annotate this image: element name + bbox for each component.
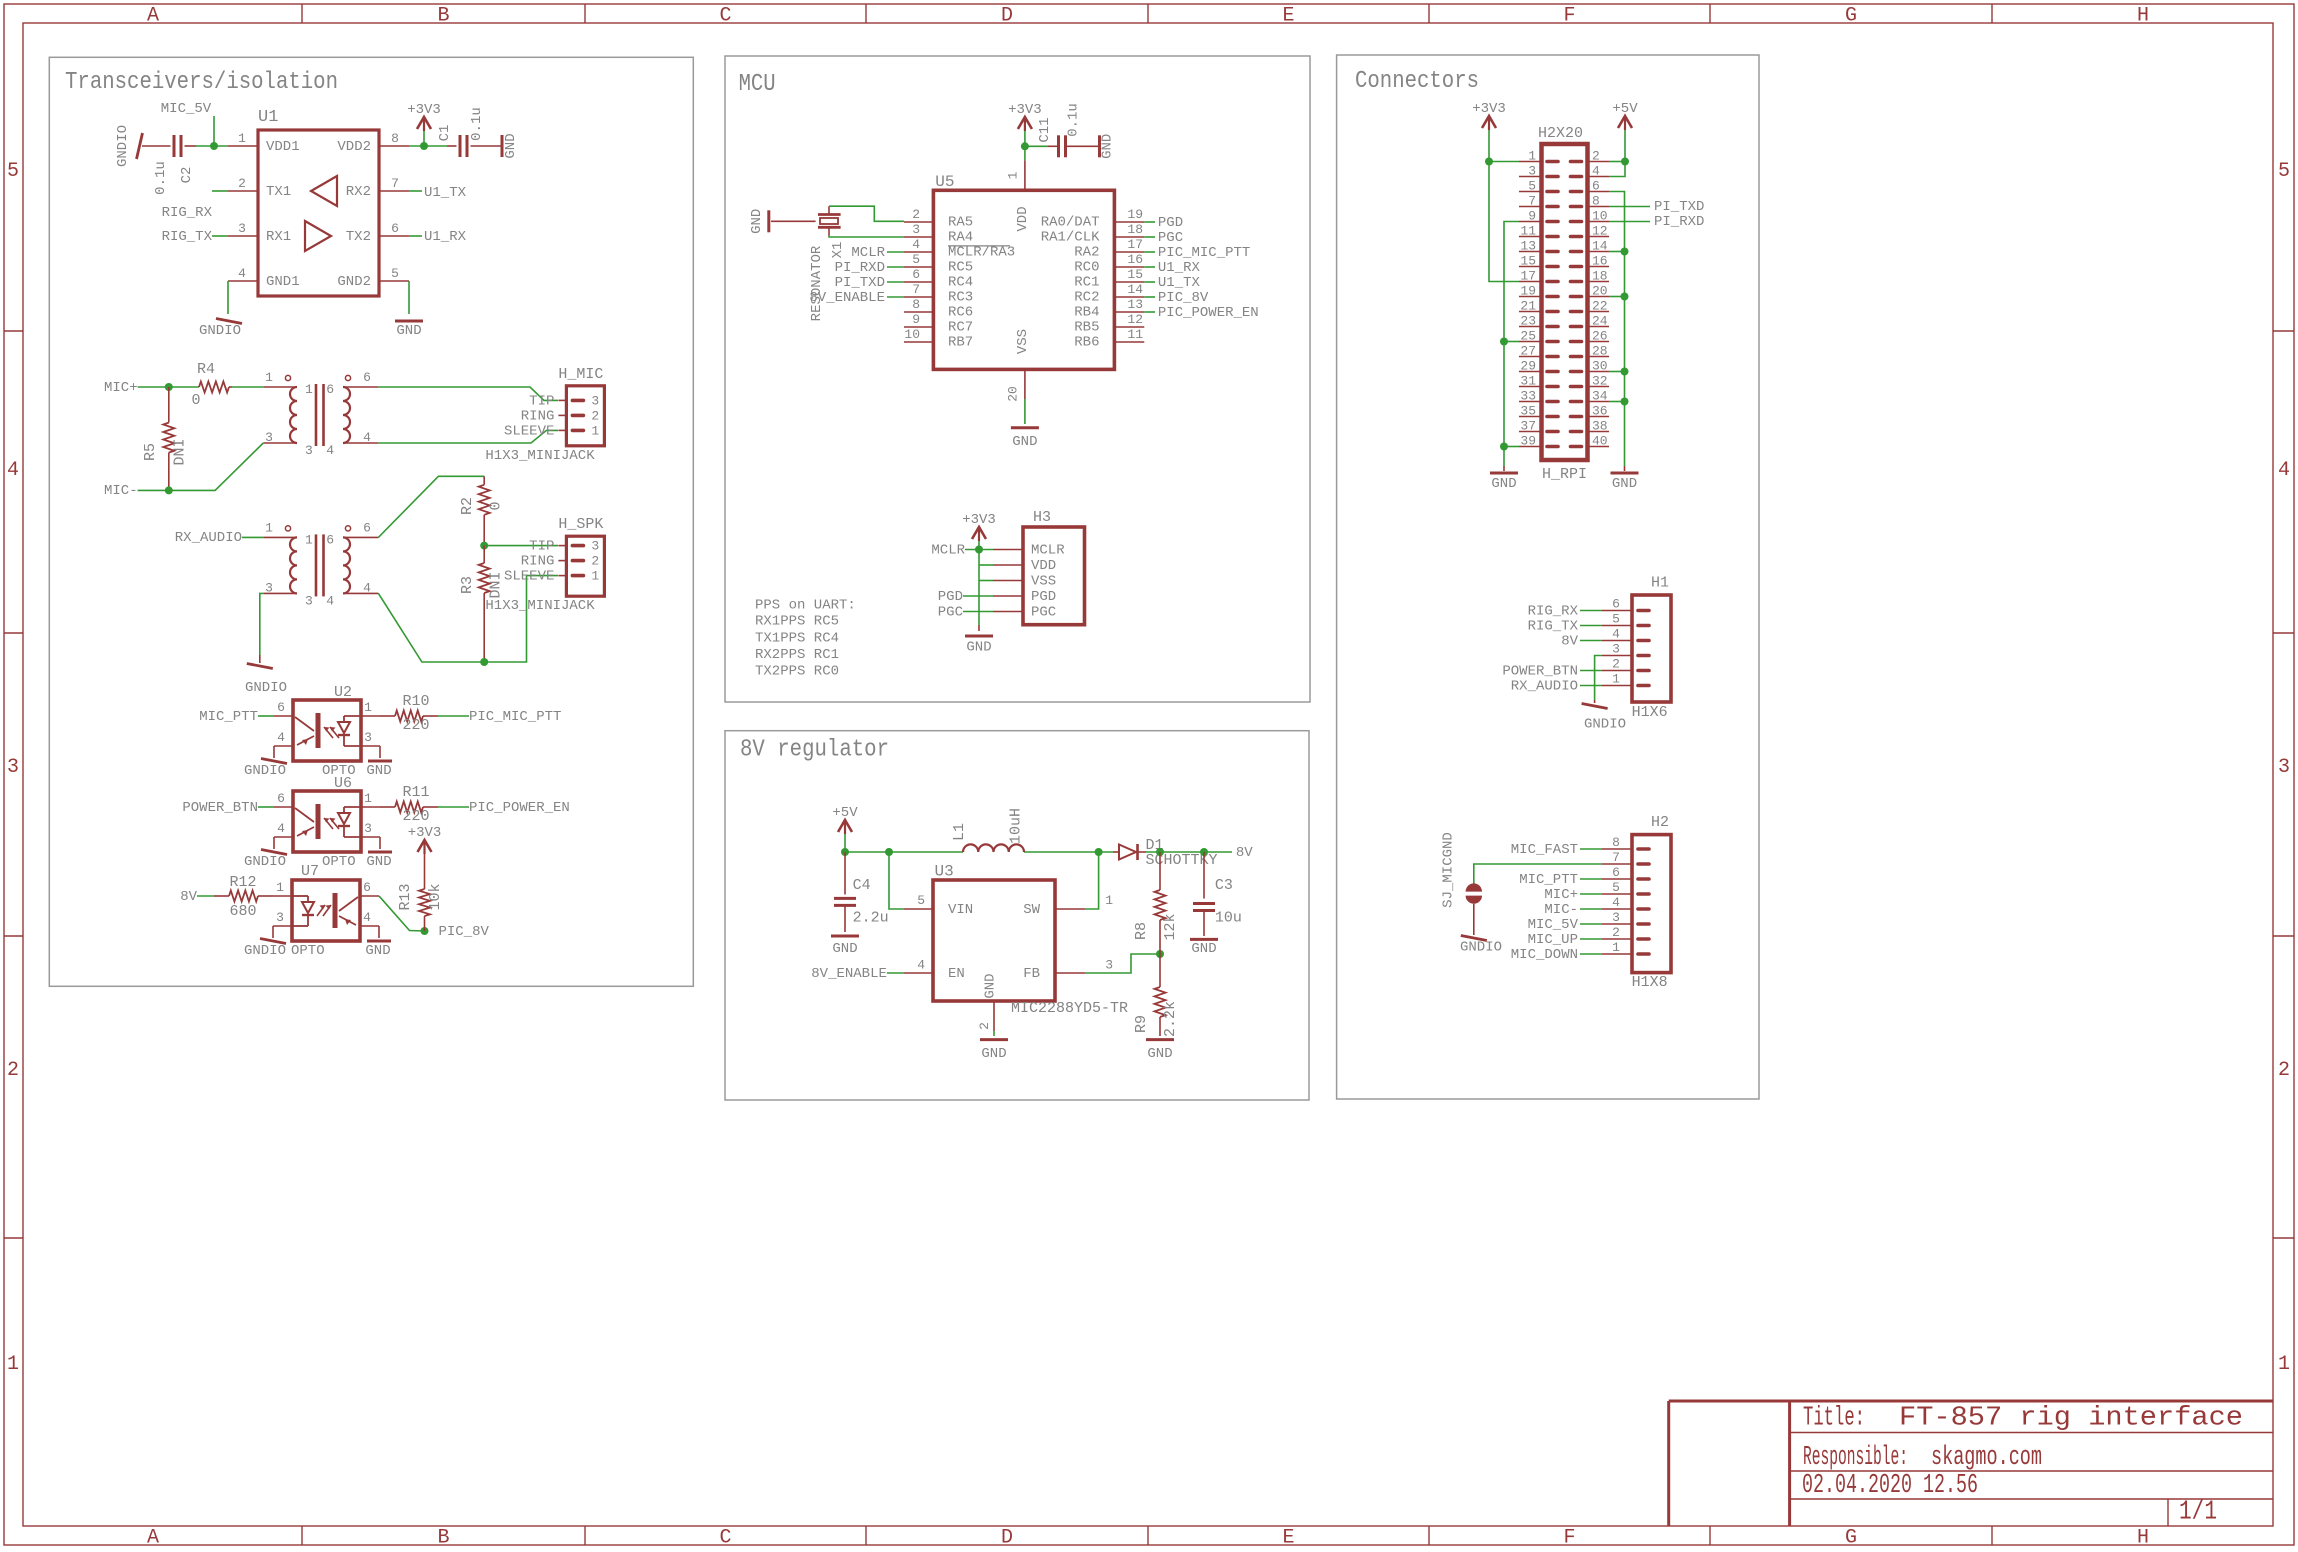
svg-text:G: G	[1845, 5, 1857, 28]
svg-text:H_RPI: H_RPI	[1542, 466, 1587, 483]
svg-text:PGD: PGD	[938, 589, 963, 605]
svg-text:H: H	[2137, 5, 2149, 28]
svg-text:2.2u: 2.2u	[853, 909, 889, 926]
svg-text:C: C	[719, 1527, 731, 1548]
svg-text:VDD1: VDD1	[266, 139, 300, 155]
svg-text:C4: C4	[853, 877, 871, 894]
svg-text:RB4: RB4	[1074, 305, 1099, 321]
svg-text:X1: X1	[830, 242, 846, 259]
svg-text:1: 1	[238, 131, 246, 146]
svg-text:680: 680	[229, 903, 256, 920]
svg-text:10u: 10u	[1215, 909, 1242, 926]
svg-text:H1: H1	[1651, 575, 1669, 592]
svg-text:8: 8	[1612, 835, 1620, 850]
svg-text:10: 10	[904, 327, 920, 342]
svg-text:PIC_POWER_EN: PIC_POWER_EN	[1158, 305, 1259, 321]
svg-text:9: 9	[912, 312, 920, 327]
svg-text:15: 15	[1127, 267, 1143, 282]
svg-text:2: 2	[591, 408, 599, 423]
svg-text:8V_ENABLE: 8V_ENABLE	[811, 966, 887, 982]
svg-text:6: 6	[1612, 865, 1620, 880]
svg-text:RC0: RC0	[1074, 260, 1099, 276]
svg-text:OPTO: OPTO	[322, 854, 356, 870]
svg-text:25: 25	[1520, 329, 1536, 344]
svg-text:PI_TXD: PI_TXD	[835, 275, 885, 291]
svg-text:GND: GND	[1099, 134, 1115, 159]
svg-text:H1X3_MINIJACK: H1X3_MINIJACK	[485, 448, 595, 464]
svg-text:H1X3_MINIJACK: H1X3_MINIJACK	[485, 598, 595, 614]
svg-text:12: 12	[1127, 312, 1143, 327]
svg-text:RIG_RX: RIG_RX	[1528, 604, 1579, 620]
svg-text:1: 1	[364, 700, 372, 715]
svg-text:RX2PPS RC1: RX2PPS RC1	[755, 647, 839, 663]
svg-text:H3: H3	[1033, 509, 1051, 526]
svg-text:GND: GND	[1612, 476, 1637, 492]
svg-text:8V: 8V	[180, 889, 197, 905]
svg-text:skagmo.com: skagmo.com	[1931, 1443, 2042, 1473]
svg-text:28: 28	[1592, 344, 1608, 359]
svg-text:R11: R11	[402, 784, 429, 801]
svg-text:GND: GND	[1147, 1046, 1172, 1062]
svg-text:PGC: PGC	[1158, 230, 1183, 246]
svg-text:10: 10	[1592, 209, 1608, 224]
svg-text:U5: U5	[935, 173, 954, 191]
svg-text:1: 1	[1105, 893, 1113, 908]
svg-text:MCLR: MCLR	[931, 543, 965, 559]
svg-text:30: 30	[1592, 359, 1608, 374]
svg-text:4: 4	[326, 593, 334, 608]
svg-text:OPTO: OPTO	[291, 943, 325, 959]
svg-text:MIC-: MIC-	[104, 483, 138, 499]
svg-text:+3V3: +3V3	[1008, 102, 1042, 118]
svg-text:GNDIO: GNDIO	[244, 943, 286, 959]
svg-text:POWER_BTN: POWER_BTN	[1502, 664, 1578, 680]
svg-text:PIC_8V: PIC_8V	[1158, 290, 1209, 306]
svg-text:3: 3	[1528, 164, 1536, 179]
svg-text:37: 37	[1520, 419, 1536, 434]
svg-text:FT-857 rig interface: FT-857 rig interface	[1899, 1404, 2243, 1434]
svg-text:RA2: RA2	[1074, 245, 1099, 261]
svg-text:GND: GND	[749, 209, 765, 234]
svg-text:5: 5	[7, 160, 19, 183]
svg-text:1/1: 1/1	[2179, 1498, 2217, 1528]
svg-text:1: 1	[265, 370, 273, 385]
svg-text:4: 4	[1592, 164, 1600, 179]
svg-text:PGD: PGD	[1158, 215, 1183, 231]
svg-text:3: 3	[1612, 910, 1620, 925]
svg-text:D: D	[1001, 5, 1013, 28]
svg-text:U3: U3	[935, 863, 954, 881]
svg-text:3: 3	[364, 821, 372, 836]
svg-text:VSS: VSS	[1015, 329, 1031, 354]
svg-text:RB6: RB6	[1074, 335, 1099, 351]
svg-text:3: 3	[7, 756, 19, 779]
svg-text:3: 3	[1105, 958, 1113, 973]
svg-text:17: 17	[1520, 269, 1536, 284]
svg-text:Transceivers/isolation: Transceivers/isolation	[65, 69, 338, 96]
svg-text:+3V3: +3V3	[407, 102, 441, 118]
svg-text:U1_TX: U1_TX	[1158, 275, 1201, 291]
svg-text:4: 4	[277, 730, 285, 745]
svg-text:DNI: DNI	[487, 571, 504, 598]
svg-text:39: 39	[1520, 434, 1536, 449]
svg-text:VDD: VDD	[1015, 206, 1031, 231]
svg-text:5: 5	[1612, 880, 1620, 895]
svg-text:8: 8	[912, 297, 920, 312]
svg-text:11: 11	[1520, 224, 1536, 239]
svg-text:MCLR: MCLR	[1031, 543, 1065, 559]
svg-text:6: 6	[391, 221, 399, 236]
svg-text:4: 4	[238, 266, 246, 281]
svg-text:RC5: RC5	[948, 260, 973, 276]
svg-text:B: B	[437, 5, 449, 28]
svg-text:5: 5	[1528, 179, 1536, 194]
svg-text:GND1: GND1	[266, 274, 300, 290]
svg-text:FB: FB	[1023, 966, 1040, 982]
svg-text:L1: L1	[951, 823, 968, 841]
svg-text:22: 22	[1592, 299, 1608, 314]
svg-text:8V regulator: 8V regulator	[740, 737, 889, 764]
svg-text:1: 1	[2278, 1353, 2290, 1376]
svg-text:+3V3: +3V3	[408, 825, 442, 841]
svg-text:3: 3	[305, 593, 313, 608]
svg-text:GND: GND	[1191, 941, 1216, 957]
svg-text:4: 4	[917, 958, 925, 973]
svg-text:DNI: DNI	[171, 438, 188, 465]
svg-text:1: 1	[1612, 672, 1620, 687]
svg-text:7: 7	[912, 282, 920, 297]
svg-text:8V: 8V	[1236, 845, 1253, 861]
svg-text:16: 16	[1127, 252, 1143, 267]
svg-text:MCLR/RA3: MCLR/RA3	[948, 245, 1015, 261]
svg-text:6: 6	[1592, 179, 1600, 194]
svg-text:5: 5	[912, 252, 920, 267]
svg-text:19: 19	[1127, 207, 1143, 222]
svg-text:1: 1	[7, 1353, 19, 1376]
svg-text:1: 1	[364, 791, 372, 806]
svg-text:R5: R5	[142, 443, 159, 461]
svg-text:18: 18	[1127, 222, 1143, 237]
svg-text:GND: GND	[503, 133, 519, 158]
svg-text:MIC_PTT: MIC_PTT	[199, 709, 258, 725]
svg-text:U1_RX: U1_RX	[424, 229, 467, 245]
svg-text:MIC2288YD5-TR: MIC2288YD5-TR	[1011, 1000, 1128, 1017]
svg-text:24: 24	[1592, 314, 1608, 329]
svg-text:32: 32	[1592, 374, 1608, 389]
svg-text:RING: RING	[521, 554, 555, 570]
svg-text:GND: GND	[366, 854, 391, 870]
svg-text:6: 6	[912, 267, 920, 282]
svg-text:26: 26	[1592, 329, 1608, 344]
svg-text:4: 4	[1612, 627, 1620, 642]
svg-text:RC4: RC4	[948, 275, 973, 291]
svg-text:+5V: +5V	[832, 805, 858, 821]
svg-text:R9: R9	[1133, 1015, 1150, 1033]
svg-text:C1: C1	[437, 125, 453, 142]
svg-text:PGC: PGC	[938, 605, 963, 621]
svg-text:PI_TXD: PI_TXD	[1654, 199, 1704, 215]
svg-text:2: 2	[1612, 657, 1620, 672]
svg-text:GNDIO: GNDIO	[1584, 717, 1626, 733]
svg-text:GNDIO: GNDIO	[245, 680, 287, 696]
svg-text:3: 3	[265, 430, 273, 445]
svg-text:3: 3	[364, 730, 372, 745]
svg-text:PI_RXD: PI_RXD	[835, 260, 885, 276]
svg-text:4: 4	[2278, 459, 2290, 482]
svg-text:RA4: RA4	[948, 230, 973, 246]
svg-text:6: 6	[363, 520, 371, 535]
svg-text:U7: U7	[301, 863, 319, 880]
svg-text:H2X20: H2X20	[1538, 125, 1583, 142]
svg-text:6: 6	[277, 700, 285, 715]
svg-text:0.1u: 0.1u	[153, 161, 169, 195]
svg-text:MIC_FAST: MIC_FAST	[1511, 842, 1578, 858]
svg-text:MIC_UP: MIC_UP	[1528, 932, 1578, 948]
svg-text:RC2: RC2	[1074, 290, 1099, 306]
svg-text:D: D	[1001, 1527, 1013, 1548]
svg-text:1: 1	[1006, 171, 1021, 179]
svg-text:VDD2: VDD2	[337, 139, 371, 155]
svg-text:TIP: TIP	[529, 393, 554, 409]
svg-text:GND: GND	[396, 323, 421, 339]
svg-text:R10: R10	[402, 693, 429, 710]
svg-text:Connectors: Connectors	[1355, 68, 1479, 95]
svg-text:H_SPK: H_SPK	[558, 516, 603, 533]
svg-text:+3V3: +3V3	[1472, 101, 1506, 117]
svg-text:1: 1	[591, 423, 599, 438]
svg-text:RING: RING	[521, 408, 555, 424]
svg-text:4: 4	[326, 443, 334, 458]
svg-text:SLEEVE: SLEEVE	[504, 423, 554, 439]
svg-text:R2: R2	[459, 497, 476, 515]
svg-text:4: 4	[7, 459, 19, 482]
svg-text:2: 2	[912, 207, 920, 222]
svg-text:MCLR: MCLR	[851, 245, 885, 261]
svg-text:220: 220	[402, 717, 429, 734]
svg-text:RC3: RC3	[948, 290, 973, 306]
svg-text:21: 21	[1520, 299, 1536, 314]
svg-text:8: 8	[1592, 194, 1600, 209]
svg-text:9: 9	[1528, 209, 1536, 224]
svg-text:H2: H2	[1651, 814, 1669, 831]
svg-text:6: 6	[326, 382, 334, 397]
svg-text:3: 3	[1612, 642, 1620, 657]
svg-text:10k: 10k	[427, 883, 444, 910]
svg-text:19: 19	[1520, 284, 1536, 299]
svg-text:38: 38	[1592, 419, 1608, 434]
svg-text:PI_RXD: PI_RXD	[1654, 214, 1704, 230]
svg-text:C: C	[719, 5, 731, 28]
svg-text:10uH: 10uH	[1008, 808, 1025, 844]
svg-text:40: 40	[1592, 434, 1608, 449]
svg-text:+3V3: +3V3	[962, 512, 996, 528]
svg-text:GND2: GND2	[337, 274, 371, 290]
svg-text:4: 4	[363, 580, 371, 595]
svg-text:PGD: PGD	[1031, 589, 1056, 605]
svg-text:GND: GND	[983, 973, 999, 998]
svg-text:1: 1	[591, 569, 599, 584]
svg-text:2: 2	[591, 554, 599, 569]
svg-text:H1X6: H1X6	[1632, 704, 1668, 721]
svg-text:R12: R12	[229, 874, 256, 891]
svg-text:6: 6	[363, 880, 371, 895]
svg-text:2: 2	[1612, 925, 1620, 940]
svg-text:12k: 12k	[1162, 913, 1179, 940]
svg-text:Responsible:: Responsible:	[1803, 1443, 1908, 1473]
svg-text:Title:: Title:	[1803, 1404, 1865, 1434]
svg-text:GND: GND	[966, 640, 991, 656]
svg-text:4: 4	[1612, 895, 1620, 910]
svg-text:GNDIO: GNDIO	[244, 763, 286, 779]
svg-text:14: 14	[1592, 239, 1608, 254]
svg-text:33: 33	[1520, 389, 1536, 404]
svg-text:MIC_5V: MIC_5V	[1528, 917, 1579, 933]
svg-text:6: 6	[326, 532, 334, 547]
svg-text:SLEEVE: SLEEVE	[504, 569, 554, 585]
svg-text:MIC-: MIC-	[1544, 902, 1578, 918]
svg-text:6: 6	[363, 370, 371, 385]
svg-text:3: 3	[591, 393, 599, 408]
svg-text:H_MIC: H_MIC	[558, 366, 603, 383]
svg-text:PIC_8V: PIC_8V	[439, 924, 490, 940]
svg-text:5: 5	[917, 893, 925, 908]
svg-text:0.1u: 0.1u	[1065, 103, 1081, 137]
svg-text:31: 31	[1520, 374, 1536, 389]
svg-text:5: 5	[2278, 160, 2290, 183]
svg-text:4: 4	[277, 821, 285, 836]
svg-text:3: 3	[305, 443, 313, 458]
svg-text:RC6: RC6	[948, 305, 973, 321]
svg-text:H1X8: H1X8	[1632, 974, 1668, 991]
svg-text:U2: U2	[334, 684, 352, 701]
svg-text:U1_RX: U1_RX	[1158, 260, 1201, 276]
svg-text:RC7: RC7	[948, 320, 973, 336]
svg-text:GND: GND	[981, 1046, 1006, 1062]
svg-text:TX1: TX1	[266, 184, 291, 200]
svg-text:MIC_PTT: MIC_PTT	[1519, 872, 1578, 888]
svg-text:VSS: VSS	[1031, 574, 1056, 590]
svg-text:RX1PPS RC5: RX1PPS RC5	[755, 614, 839, 630]
svg-text:B: B	[437, 1527, 449, 1548]
svg-text:RA5: RA5	[948, 215, 973, 231]
svg-text:GNDIO: GNDIO	[199, 323, 241, 339]
svg-text:U1_TX: U1_TX	[424, 185, 467, 201]
svg-text:7: 7	[391, 176, 399, 191]
svg-text:PGC: PGC	[1031, 605, 1056, 621]
svg-text:2: 2	[238, 176, 246, 191]
svg-text:TX2: TX2	[346, 229, 371, 245]
svg-text:1: 1	[305, 382, 313, 397]
svg-text:17: 17	[1127, 237, 1143, 252]
svg-text:GND: GND	[1491, 476, 1516, 492]
svg-text:MIC+: MIC+	[1544, 887, 1578, 903]
svg-text:3: 3	[2278, 756, 2290, 779]
svg-text:RB7: RB7	[948, 335, 973, 351]
svg-text:RA0/DAT: RA0/DAT	[1041, 215, 1100, 231]
svg-text:1: 1	[1612, 940, 1620, 955]
svg-text:A: A	[147, 1527, 159, 1548]
svg-text:13: 13	[1520, 239, 1536, 254]
svg-text:GND: GND	[365, 943, 390, 959]
svg-text:2.2k: 2.2k	[1162, 1001, 1179, 1037]
svg-text:TX2PPS RC0: TX2PPS RC0	[755, 664, 839, 680]
svg-text:RESONATOR: RESONATOR	[809, 245, 825, 321]
svg-text:MCU: MCU	[739, 71, 776, 98]
svg-text:SW: SW	[1023, 902, 1040, 918]
svg-text:7: 7	[1528, 194, 1536, 209]
svg-text:RIG_TX: RIG_TX	[1528, 619, 1579, 635]
svg-text:3: 3	[912, 222, 920, 237]
svg-text:PIC_POWER_EN: PIC_POWER_EN	[469, 800, 570, 816]
svg-text:5: 5	[391, 266, 399, 281]
svg-text:RIG_RX: RIG_RX	[162, 205, 213, 221]
svg-text:4: 4	[363, 910, 371, 925]
svg-text:GNDIO: GNDIO	[115, 125, 131, 167]
svg-text:A: A	[147, 5, 159, 28]
svg-text:GND: GND	[366, 763, 391, 779]
svg-text:GNDIO: GNDIO	[1460, 940, 1502, 956]
svg-text:0.1u: 0.1u	[469, 107, 485, 141]
svg-text:2: 2	[2278, 1059, 2290, 1082]
svg-text:GNDIO: GNDIO	[244, 854, 286, 870]
svg-text:18: 18	[1592, 269, 1608, 284]
svg-text:POWER_BTN: POWER_BTN	[182, 800, 258, 816]
svg-text:2: 2	[1592, 149, 1600, 164]
svg-text:8: 8	[391, 131, 399, 146]
svg-text:3: 3	[238, 221, 246, 236]
svg-text:GND: GND	[832, 941, 857, 957]
svg-text:+5V: +5V	[1612, 101, 1638, 117]
svg-text:TIP: TIP	[529, 539, 554, 555]
svg-text:15: 15	[1520, 254, 1536, 269]
svg-text:4: 4	[912, 237, 920, 252]
svg-text:RX_AUDIO: RX_AUDIO	[1511, 679, 1578, 695]
svg-text:G: G	[1845, 1527, 1857, 1548]
svg-text:35: 35	[1520, 404, 1536, 419]
svg-text:7: 7	[1612, 850, 1620, 865]
svg-text:E: E	[1282, 5, 1294, 28]
svg-text:36: 36	[1592, 404, 1608, 419]
svg-text:F: F	[1563, 1527, 1575, 1548]
svg-text:6: 6	[277, 791, 285, 806]
svg-text:12: 12	[1592, 224, 1608, 239]
svg-text:RX1: RX1	[266, 229, 291, 245]
svg-text:0: 0	[487, 501, 504, 510]
svg-text:U1: U1	[258, 108, 278, 127]
svg-text:6: 6	[1612, 597, 1620, 612]
svg-text:14: 14	[1127, 282, 1143, 297]
svg-text:2: 2	[977, 1022, 992, 1030]
svg-text:1: 1	[276, 880, 284, 895]
svg-text:MIC_5V: MIC_5V	[161, 101, 212, 117]
svg-text:4: 4	[363, 430, 371, 445]
svg-text:RC1: RC1	[1074, 275, 1099, 291]
svg-text:C3: C3	[1215, 877, 1233, 894]
svg-text:MIC+: MIC+	[104, 380, 138, 396]
svg-text:RB5: RB5	[1074, 320, 1099, 336]
svg-text:SJ_MICGND: SJ_MICGND	[1441, 832, 1457, 908]
svg-text:RX2: RX2	[346, 184, 371, 200]
svg-text:PIC_MIC_PTT: PIC_MIC_PTT	[1158, 245, 1250, 261]
svg-text:1: 1	[305, 532, 313, 547]
svg-text:F: F	[1563, 5, 1575, 28]
svg-text:R4: R4	[197, 361, 215, 378]
svg-text:GND: GND	[1012, 434, 1037, 450]
svg-text:VDD: VDD	[1031, 558, 1056, 574]
svg-text:11: 11	[1127, 327, 1143, 342]
svg-text:R3: R3	[459, 576, 476, 594]
svg-text:PIC_MIC_PTT: PIC_MIC_PTT	[469, 709, 561, 725]
